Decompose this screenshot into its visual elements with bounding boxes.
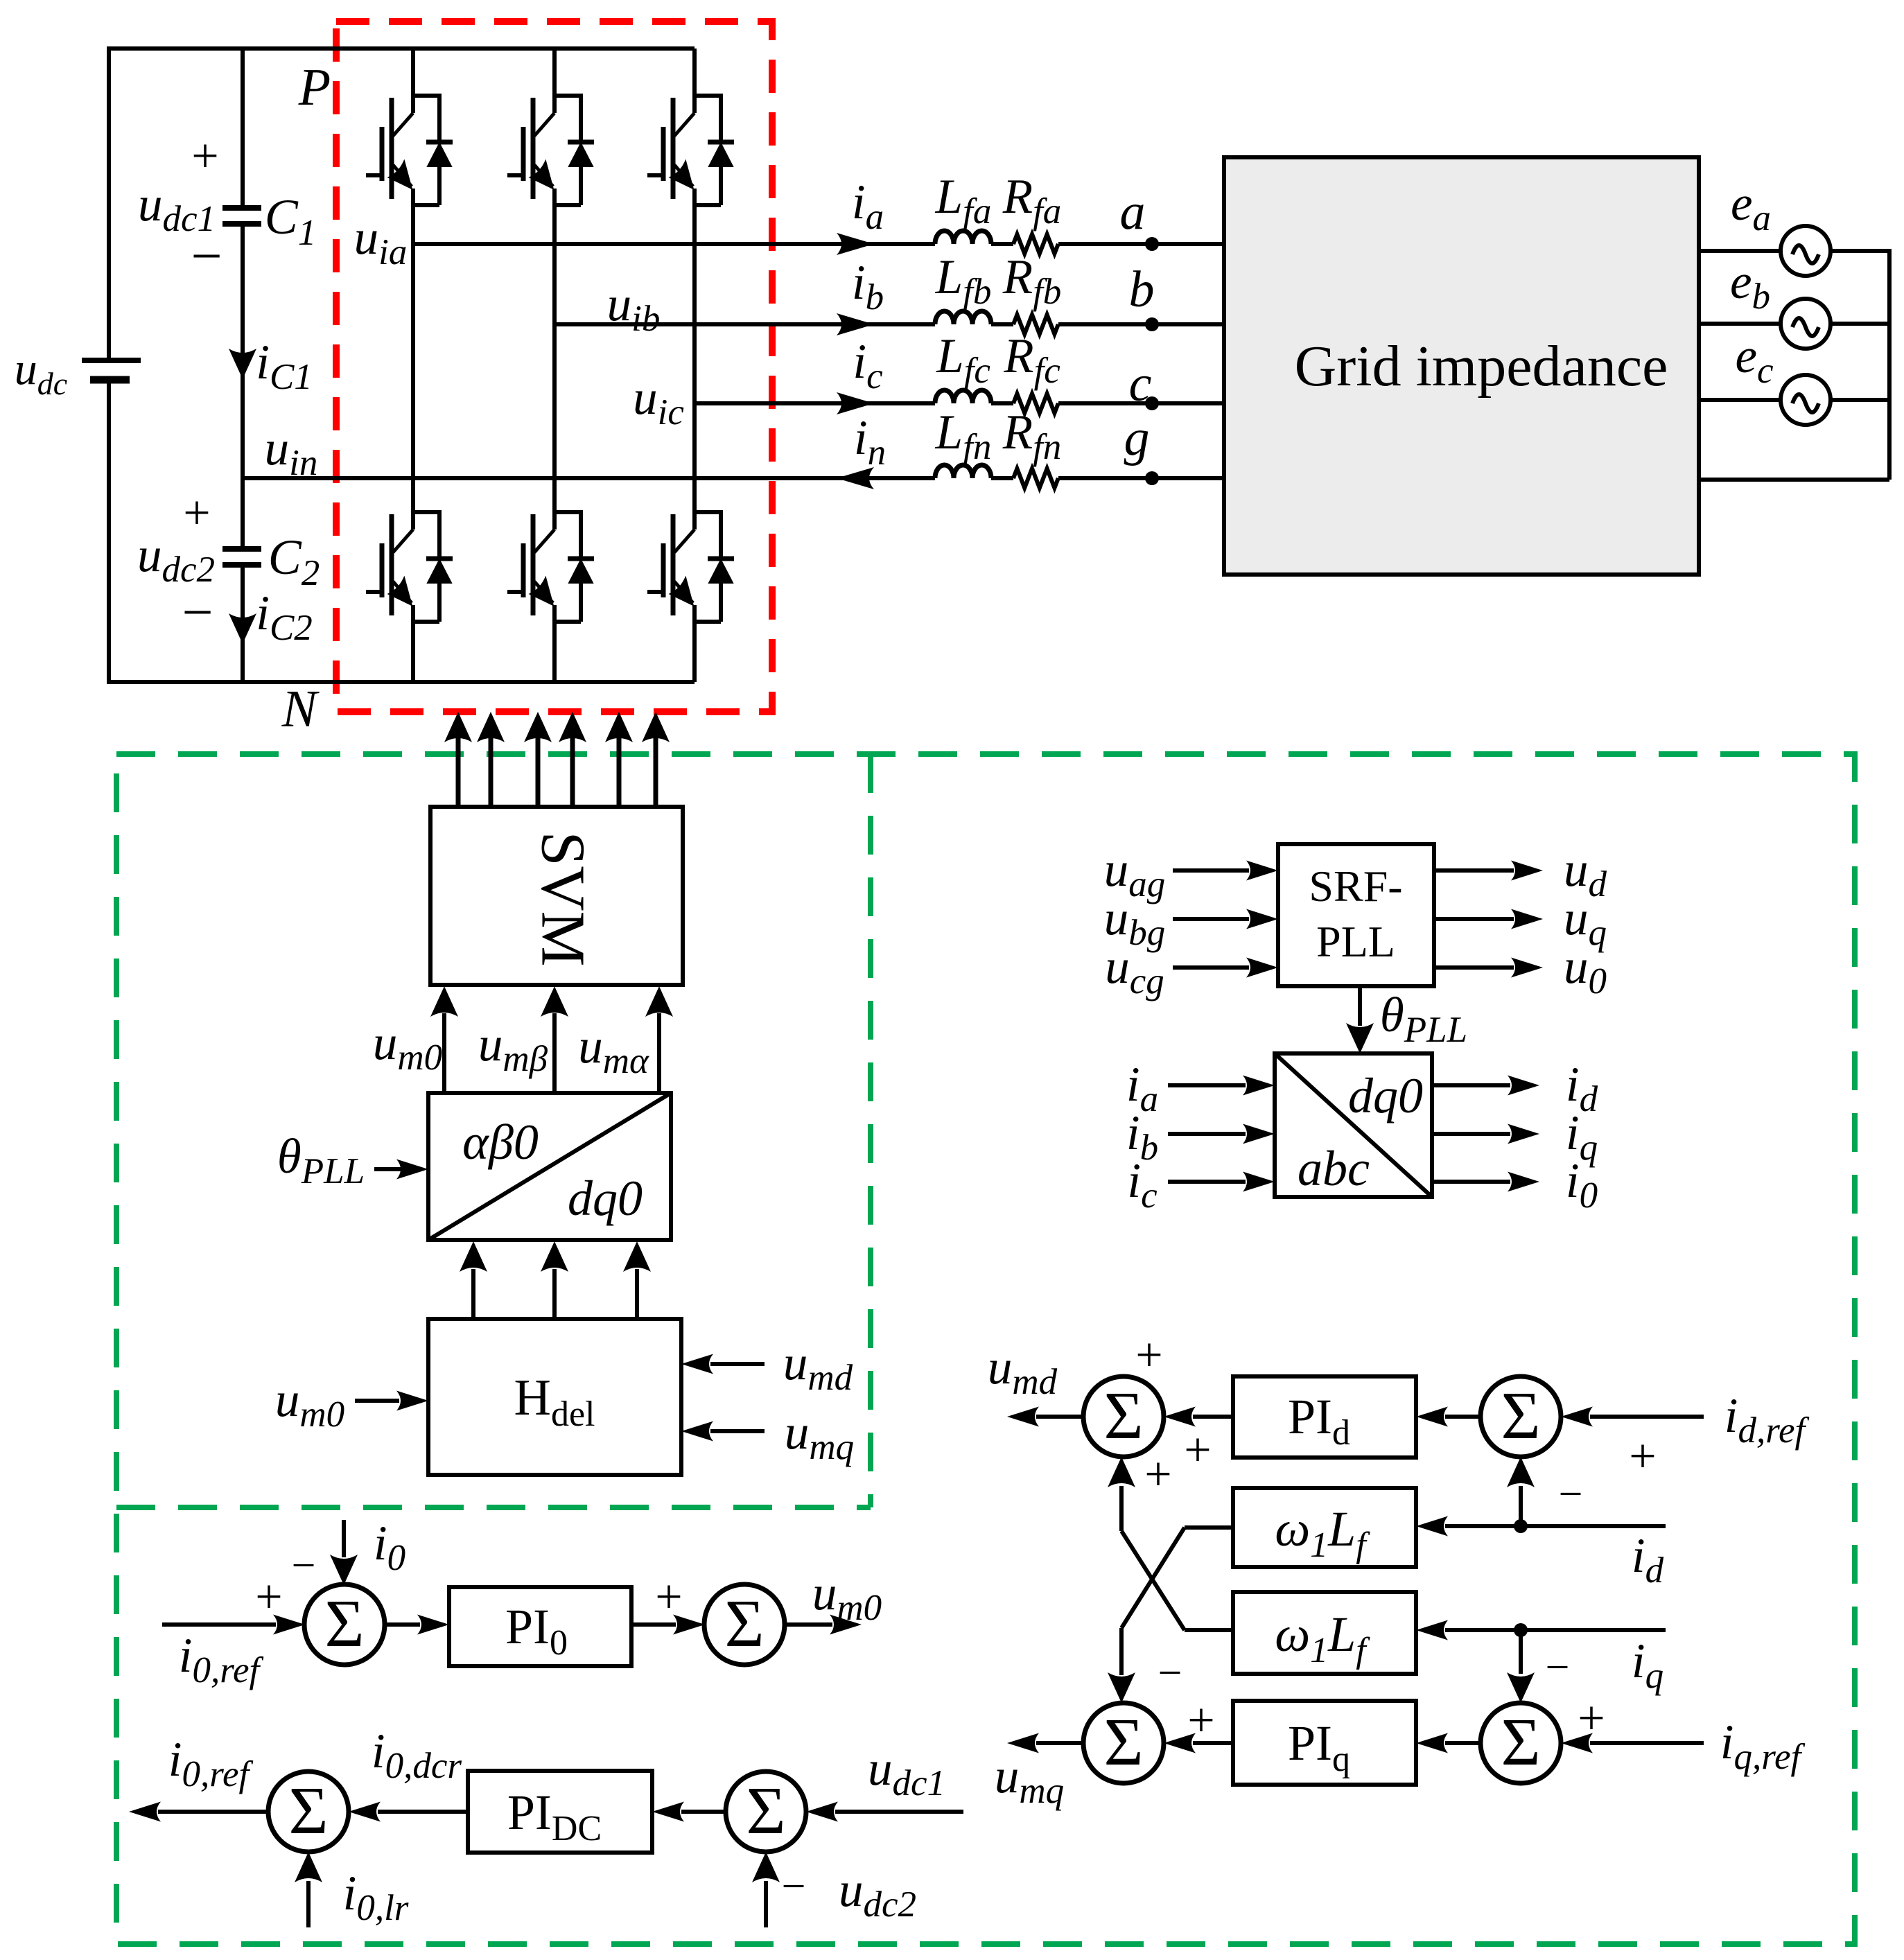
arrow into S_qref (1561, 1733, 1593, 1753)
arrow u_m0 output (830, 1615, 862, 1635)
transform box ab0/dq0 (428, 1093, 671, 1240)
svg-text:−: − (1559, 1471, 1583, 1518)
arrow into PI_d (1416, 1407, 1448, 1427)
junction dot on i_d line (1514, 1519, 1528, 1533)
battery u_dc short plate (90, 376, 130, 384)
AC source e_b (1781, 299, 1831, 349)
svg-text:dq0: dq0 (1348, 1068, 1423, 1123)
arrow i_q out (1508, 1124, 1539, 1144)
wire: left rail lower (from battery) (107, 382, 111, 684)
transistor S3 (IGBT+diode, leg B upper) (507, 94, 594, 207)
svg-text:Grid impedance: Grid impedance (1295, 334, 1668, 399)
resistor R_fb (1013, 315, 1058, 334)
svg-text:P: P (298, 58, 331, 116)
wire i_0,lr up into S_dc1 (306, 1881, 311, 1927)
inductor L_fa (935, 231, 991, 244)
arrow u_bg (1246, 909, 1278, 929)
wire i_d line (1445, 1524, 1666, 1528)
svg-text:dq0: dq0 (568, 1171, 643, 1226)
summer S_m0 (704, 1584, 785, 1665)
arrow u_dc2 into S_dc2 (752, 1852, 780, 1882)
transistor S2 (IGBT+diode, leg C lower) (647, 510, 734, 624)
w1Lf upper box (1233, 1488, 1416, 1567)
arrow theta_PLL into abc box (1346, 1023, 1374, 1053)
svg-text:+: + (1144, 1448, 1171, 1501)
inductor L_fb (935, 311, 991, 324)
wire: e_b left segment (1699, 322, 1781, 326)
red dashed box (inverter bridge) (336, 21, 772, 712)
arrow H_del out 3 (623, 1241, 651, 1272)
arrow u_md into H_del (681, 1354, 713, 1374)
junction dot on i_q line (1514, 1623, 1528, 1637)
svg-text:abc: abc (1298, 1141, 1370, 1196)
arrow u_q out (1511, 909, 1543, 929)
svg-text:αβ0: αβ0 (462, 1114, 539, 1170)
gate signal wire 2 (489, 736, 494, 807)
wire u_mq output (1036, 1741, 1083, 1745)
wire PI_0 to S_m0 (631, 1622, 676, 1627)
arrow theta_PLL into transform (396, 1160, 428, 1180)
svg-text:−: − (1158, 1650, 1182, 1697)
arrow H_del out 1 (460, 1241, 487, 1272)
wire i_a in (1168, 1083, 1246, 1087)
arrow into S_dc1 (349, 1802, 381, 1822)
wire i_q out (1432, 1132, 1510, 1136)
wire u_mbeta into SVM (552, 1013, 557, 1093)
arrow i_a in (1243, 1076, 1275, 1096)
wire i_q line (1445, 1628, 1666, 1632)
arrow up into S_md (1108, 1457, 1135, 1487)
arrow u_cg (1246, 958, 1278, 978)
wire u_q out (1434, 917, 1514, 921)
svg-text:−: − (191, 226, 222, 287)
wire cross diagonal (lower to upper-left) (1121, 1531, 1185, 1630)
wire: e_b right segment (1831, 322, 1892, 326)
battery u_dc long plate (82, 358, 141, 363)
wire down into S_mq (1119, 1628, 1124, 1675)
wire u_bg (1173, 917, 1249, 921)
wire up into S_md (1119, 1486, 1124, 1531)
wire u_m0 into H_del (355, 1399, 399, 1403)
wire: leg A upper (411, 49, 415, 94)
resistor R_fn (1013, 469, 1058, 488)
transistor S5 (IGBT+diode, leg C upper) (647, 94, 734, 207)
current arrow i_C1 (229, 349, 256, 379)
capacitor C1 bottom plate (222, 221, 261, 227)
wire: bottom DC bus N rail (109, 680, 695, 684)
arrow u_mq output (1007, 1733, 1039, 1753)
svg-text:a: a (1120, 184, 1146, 240)
wire: leg B upper (552, 49, 557, 94)
wire: leg A bottom (411, 624, 415, 682)
arrow into S_mq (1164, 1733, 1196, 1753)
arrow into S_dref (1561, 1407, 1593, 1427)
current arrow i_a (837, 233, 874, 255)
arrow down into S_qref (1507, 1672, 1535, 1703)
wire u_cg (1173, 965, 1249, 970)
gate signal wire 3 (536, 736, 541, 807)
svg-text:−: − (1546, 1644, 1570, 1691)
wire u_md output (1036, 1415, 1083, 1419)
wire H_del out 1 (471, 1269, 475, 1319)
green dashed partition vertical (868, 754, 873, 1507)
wire u_d out (1434, 868, 1514, 873)
wire: phase b line u_ib (554, 322, 1224, 326)
PI_0 box (449, 1587, 631, 1666)
wire u_md into H_del (710, 1362, 765, 1366)
SVM box (430, 807, 683, 985)
w1Lf lower box (1233, 1592, 1416, 1674)
arrow u_malpha into SVM (645, 986, 673, 1017)
svg-text:g: g (1124, 410, 1150, 466)
gate arrow 3 (524, 712, 552, 742)
transform box diagonal (428, 1093, 671, 1240)
arrow i_d into w1Lf upper (1416, 1516, 1448, 1537)
wire: capacitor branch upper (P to C1) (241, 49, 245, 208)
wire PI_d to S_md (1193, 1415, 1233, 1419)
svg-text:SVM: SVM (528, 831, 597, 966)
gate arrow 6 (642, 712, 670, 742)
arrow i_0,ref output (129, 1802, 161, 1822)
wire u_malpha into SVM (657, 1013, 661, 1093)
arrow i_c in (1243, 1172, 1275, 1192)
current arrow i_C2 (229, 613, 256, 644)
wire S_dc2 to PI_DC (681, 1810, 726, 1814)
summer S_dc2 (726, 1771, 806, 1852)
arrow u_m0 into H_del (396, 1391, 428, 1411)
svg-text:b: b (1129, 261, 1155, 318)
wire theta_PLL drop (1358, 986, 1362, 1026)
wire u_m0 into SVM (442, 1013, 446, 1093)
svg-text:SRF-: SRF- (1309, 861, 1402, 911)
wire: e_c left segment (1699, 398, 1781, 402)
wire w1Lf upper output stub (1185, 1525, 1233, 1530)
arrow u_md output (1007, 1407, 1039, 1427)
arrow u_m0 into SVM (430, 986, 458, 1017)
wire: leg A middle (411, 207, 415, 510)
svg-text:+: + (255, 1570, 282, 1624)
current arrow i_n (points left) (837, 467, 874, 489)
current arrow i_b (837, 313, 874, 335)
svg-text:−: − (292, 1542, 316, 1589)
arrow into S_m0 (673, 1615, 705, 1635)
gate signal wire 5 (617, 736, 622, 807)
wire i_0 drop (342, 1520, 346, 1557)
wire: phase a line u_ia (413, 242, 1224, 246)
wire u_mq into H_del (710, 1429, 765, 1433)
arrow into PI_DC (652, 1802, 684, 1822)
capacitor C1 top plate (222, 205, 261, 211)
arrow into PI_q (1416, 1733, 1448, 1753)
svg-text:c: c (1129, 356, 1152, 412)
wire u_dc1 input (835, 1810, 963, 1814)
PI_DC box (468, 1771, 652, 1853)
wire: leg C middle (692, 207, 697, 510)
arrow u_mq into H_del (681, 1421, 713, 1442)
arrow i_d out (1508, 1076, 1539, 1096)
summer S_qref (1481, 1703, 1561, 1783)
abc-dq0 diagonal (1275, 1053, 1432, 1197)
wire S_0 to PI_0 (384, 1622, 420, 1627)
summer S_md (1083, 1376, 1164, 1457)
AC source e_c (1781, 375, 1831, 425)
abc-dq0 box (1275, 1053, 1432, 1197)
grid impedance box (1224, 157, 1699, 575)
wire H_del out 3 (635, 1269, 639, 1319)
wire w1Lf lower output stub (1185, 1628, 1233, 1632)
wire i_0,ref output (158, 1810, 268, 1814)
summer S_mq (1083, 1703, 1164, 1783)
arrow i_b in (1243, 1124, 1275, 1144)
gate signal wire 4 (570, 736, 575, 807)
wire: capacitor branch middle (C1 to C2) (241, 224, 245, 549)
wire i_q feedback down into S_qref (1519, 1630, 1523, 1674)
arrow i_q into w1Lf lower (1416, 1620, 1448, 1640)
wire PI_q to S_mq (1193, 1741, 1233, 1745)
svg-text:+: + (655, 1570, 682, 1624)
summer S_dc1 (268, 1771, 349, 1852)
arrow into S_md (1164, 1407, 1196, 1427)
green dashed controller box (116, 754, 1855, 1944)
wire: e_a right segment (1831, 249, 1892, 253)
arrow u_mbeta into SVM (541, 986, 568, 1017)
wire: leg C upper (692, 49, 697, 94)
wire PI_DC to S_dc1 (378, 1810, 468, 1814)
svg-text:PLL: PLL (1316, 917, 1395, 966)
arrow into S_0 (273, 1615, 305, 1635)
arrow u_dc1 into S_dc2 (806, 1802, 838, 1822)
arrow i_0,lr into S_dc1 (295, 1852, 322, 1882)
green dashed partition horizontal (116, 1505, 871, 1510)
arrow u_0 out (1511, 958, 1543, 978)
svg-text:+: + (191, 130, 218, 183)
wire: top DC bus P rail (109, 46, 695, 51)
resistor R_fc (1013, 394, 1058, 413)
arrow i_0 into S_0 (330, 1555, 358, 1585)
wire i_d,ref input (1590, 1415, 1704, 1419)
summer S_0 (304, 1584, 385, 1665)
gate arrow 5 (605, 712, 633, 742)
wire i_0 out (1432, 1180, 1510, 1184)
wire u_ag (1173, 868, 1249, 873)
wire u_m0 output (784, 1622, 832, 1627)
capacitor C2 top plate (222, 546, 261, 552)
arrow i_0 out (1508, 1172, 1539, 1192)
wire: left rail upper (to battery) (107, 46, 111, 358)
wire i_d out (1432, 1083, 1510, 1087)
gate arrow 1 (444, 712, 472, 742)
svg-text:+: + (1135, 1329, 1162, 1382)
wire u_dc2 up into S_dc2 (764, 1881, 768, 1927)
wire: e_c right segment (1831, 398, 1892, 402)
transistor S4 (IGBT+diode, leg A lower) (366, 510, 453, 624)
wire: phase c line u_ic (695, 401, 1224, 405)
wire S_dref to PI_d (1445, 1415, 1481, 1419)
inductor L_fn (935, 465, 991, 478)
node g junction dot (1145, 471, 1159, 485)
summer S_dref (1481, 1376, 1561, 1457)
wire: leg B bottom (552, 624, 557, 682)
arrow down into S_mq (1108, 1672, 1135, 1703)
svg-text:−: − (182, 582, 213, 643)
svg-text:+: + (1184, 1424, 1211, 1477)
wire: e_a left segment (1699, 249, 1781, 253)
wire i_d feedback up into S_dref (1519, 1486, 1523, 1526)
arrow into PI_0 (417, 1615, 449, 1635)
gate arrow 4 (559, 712, 586, 742)
arrow u_d out (1511, 861, 1543, 881)
gate signal wire 1 (456, 736, 461, 807)
gate signal wire 6 (654, 736, 658, 807)
node b junction dot (1145, 317, 1159, 331)
PI_q box (1233, 1701, 1416, 1785)
gate arrow 2 (477, 712, 505, 742)
wire: neutral line u_in (243, 476, 1224, 480)
arrow up into S_dref (1507, 1457, 1535, 1487)
wire cross diagonal (upper to lower-left) (1121, 1528, 1185, 1628)
SRF-PLL box (1278, 844, 1434, 986)
wire: leg B middle (552, 207, 557, 510)
wire: leg C bottom (692, 624, 697, 682)
wire S_qref to PI_q (1445, 1741, 1481, 1745)
svg-text:−: − (782, 1863, 806, 1910)
resistor R_fa (1013, 234, 1058, 254)
node c junction dot (1145, 396, 1159, 410)
wire H_del out 2 (552, 1269, 557, 1319)
wire: right neutral rail (1887, 251, 1892, 480)
AC source e_a (1781, 226, 1831, 276)
transistor S6 (IGBT+diode, leg B lower) (507, 510, 594, 624)
svg-text:+: + (183, 487, 210, 540)
capacitor C2 bottom plate (222, 562, 261, 568)
svg-text:N: N (281, 680, 320, 738)
wire theta_PLL into transform (374, 1167, 402, 1171)
wire i_0,ref input (162, 1622, 276, 1627)
wire i_b in (1168, 1132, 1246, 1136)
H_del box (428, 1319, 681, 1475)
wire: neutral return to grid box (1699, 478, 1889, 482)
PI_d box (1233, 1376, 1416, 1458)
arrow H_del out 2 (541, 1241, 568, 1272)
wire u_0 out (1434, 965, 1514, 970)
wire: capacitor branch lower (C2 to N) (241, 565, 245, 682)
inductor L_fc (935, 390, 991, 403)
wire i_q,ref input (1590, 1741, 1704, 1745)
current arrow i_c (837, 392, 874, 414)
wire i_c in (1168, 1180, 1246, 1184)
node a junction dot (1145, 237, 1159, 251)
arrow u_ag (1246, 861, 1278, 881)
svg-text:+: + (1629, 1430, 1656, 1483)
transistor S1 (IGBT+diode, leg A upper) (366, 94, 453, 207)
